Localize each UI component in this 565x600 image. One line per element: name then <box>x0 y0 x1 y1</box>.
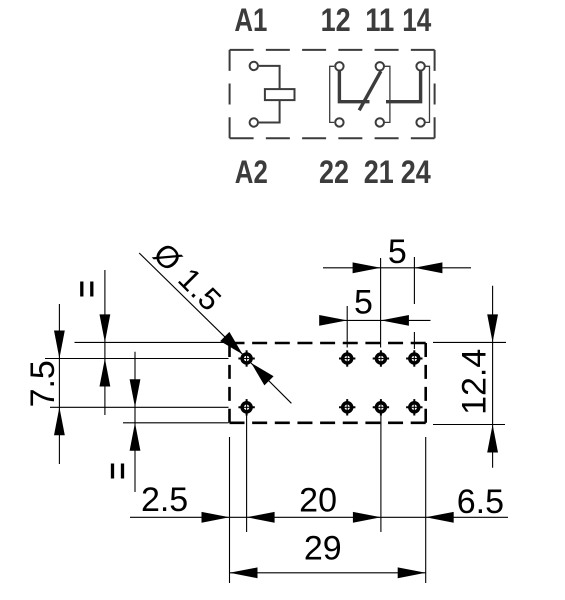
arrow equal top up <box>100 359 111 387</box>
extension line rect top left <box>75 341 229 343</box>
pin A1 <box>250 62 258 70</box>
arrow 5 upper left <box>353 262 381 273</box>
svg-text:20: 20 <box>299 482 337 520</box>
arrow 5 lower left <box>319 315 347 326</box>
hole top c3 <box>406 350 422 366</box>
arrow 20 left <box>247 512 275 523</box>
arrow diameter upper <box>220 332 242 354</box>
arrow 12.4 top <box>487 314 498 342</box>
hole bottom-left <box>238 399 254 415</box>
svg-text:12: 12 <box>321 2 351 38</box>
wire coil bottom <box>259 100 280 123</box>
dimension line 29 <box>230 572 426 574</box>
arrow equal bottom up <box>130 423 141 451</box>
dimension line 5 upper <box>323 267 471 269</box>
pin 14 <box>416 62 424 70</box>
extension line hole row bottom left <box>50 406 229 408</box>
dimension line 5 lower <box>321 319 431 321</box>
svg-text:14: 14 <box>402 2 431 38</box>
wire bracket 11-21 <box>385 66 390 122</box>
svg-text:5: 5 <box>354 284 373 322</box>
arrow 7.5 bottom <box>54 407 65 435</box>
arrow 6.5 left <box>426 512 454 523</box>
arrow 29 right <box>398 567 426 578</box>
leader line diameter lower <box>251 363 292 403</box>
wire bracket 12-22 <box>330 66 335 122</box>
hole bottom c2 <box>373 399 389 415</box>
moving contact arm from pin 11 <box>359 71 381 110</box>
contact arm from pin 12 (NC) <box>339 71 369 102</box>
svg-text:12.4: 12.4 <box>456 349 494 415</box>
arrow 12.4 bottom <box>487 425 498 453</box>
dimension line equal bottom <box>134 352 136 492</box>
extension line rect left bottom <box>229 437 231 583</box>
arrow 7.5 top <box>54 331 65 359</box>
extension line hole col left bottom <box>246 414 248 532</box>
svg-text:22: 22 <box>319 154 349 190</box>
extension line rect top right <box>433 341 506 343</box>
svg-text:24: 24 <box>401 154 431 190</box>
extension line rect right bottom <box>425 437 427 583</box>
extension line col3 short <box>413 332 415 349</box>
dashed enclosure box <box>230 49 435 51</box>
svg-text:Ø1.5: Ø1.5 <box>147 236 229 318</box>
contact arm from pin 14 (NO) <box>386 71 421 102</box>
pin 11 <box>376 62 384 70</box>
dimension line equal top <box>104 270 106 415</box>
svg-text:29: 29 <box>304 530 342 568</box>
coil rectangle <box>265 89 295 100</box>
arrow diameter lower <box>251 363 273 385</box>
pin 24 <box>416 118 424 126</box>
wire coil top <box>259 66 280 90</box>
hole top c2 <box>373 350 389 366</box>
dimension line 12.4 <box>492 286 494 468</box>
wire bracket 14-24 <box>425 66 429 122</box>
arrow 5 lower right <box>381 315 409 326</box>
leader line diameter <box>139 253 242 354</box>
dimension line 2.5 20 6.5 <box>130 516 508 518</box>
extension line col3 top <box>413 257 415 304</box>
pin A2 <box>250 118 258 126</box>
arrow 29 left <box>230 567 258 578</box>
extension line col1 top <box>346 306 348 348</box>
extension line col2 top <box>380 258 382 348</box>
svg-text:6.5: 6.5 <box>457 483 504 521</box>
pin 12 <box>335 62 343 70</box>
pin 22 <box>335 118 343 126</box>
svg-text:A1: A1 <box>234 2 267 38</box>
equality mark top <box>82 282 92 297</box>
svg-text:7.5: 7.5 <box>24 360 62 407</box>
hole top c1 <box>339 350 355 366</box>
svg-text:2.5: 2.5 <box>141 481 188 519</box>
extension line rect bottom right <box>433 424 505 426</box>
extension line col2 bottom <box>380 414 382 532</box>
arrow equal top down <box>100 314 111 342</box>
pin 21 <box>376 118 384 126</box>
hole bottom c1 <box>339 399 355 415</box>
svg-text:5: 5 <box>388 233 407 271</box>
hole bottom c3 <box>406 399 422 415</box>
footprint dashed rectangle <box>230 342 426 345</box>
arrow equal bottom down <box>130 379 141 407</box>
dimension line 7.5 <box>58 304 60 464</box>
extension line hole row top left <box>45 358 229 360</box>
svg-text:21: 21 <box>364 154 394 190</box>
arrow 5 upper right <box>414 262 442 273</box>
extension line rect bottom left <box>123 422 229 424</box>
equality mark bottom <box>113 464 123 479</box>
hole top-left <box>238 350 254 366</box>
svg-text:A2: A2 <box>235 154 268 190</box>
svg-text:11: 11 <box>365 2 394 38</box>
arrow 2.5 right <box>202 512 230 523</box>
arrow 20 right <box>353 512 381 523</box>
holes group <box>238 350 422 415</box>
